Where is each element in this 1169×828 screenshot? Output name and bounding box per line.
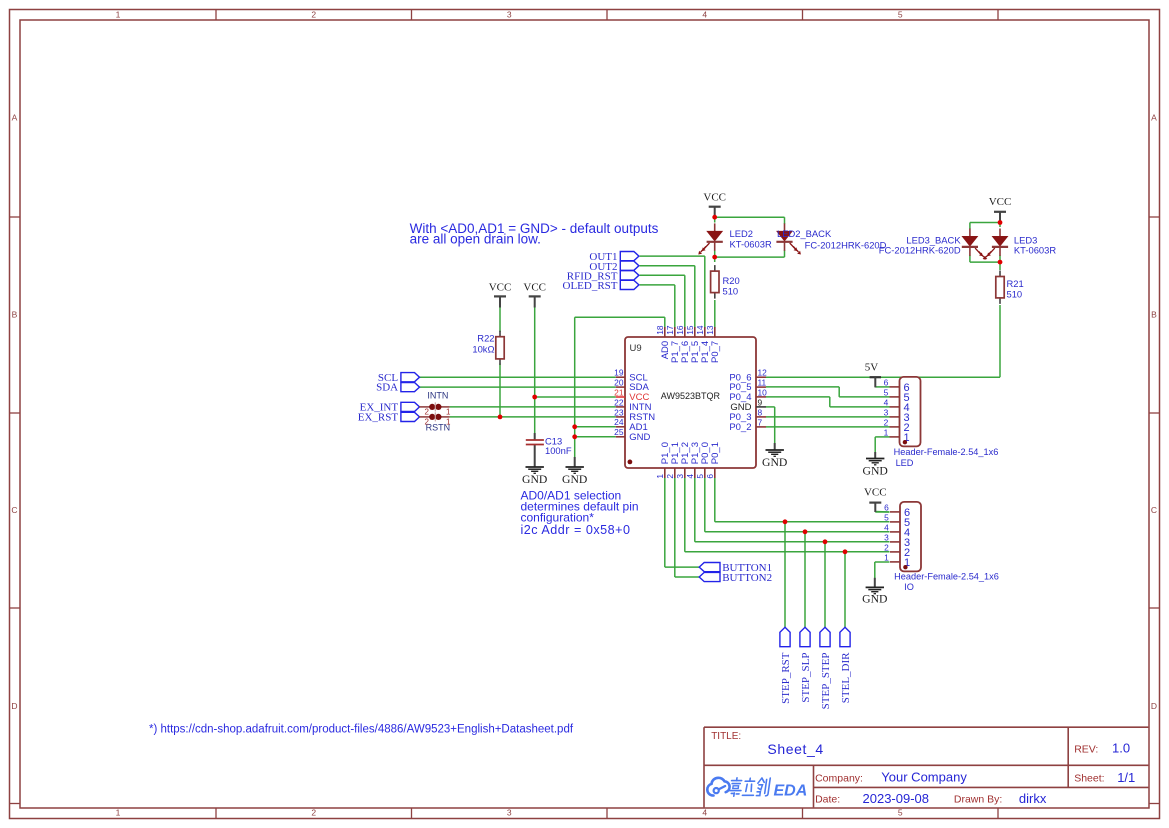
svg-text:STEP_RST: STEP_RST <box>780 652 792 704</box>
svg-text:4: 4 <box>884 523 889 533</box>
wire <box>999 217 1001 227</box>
svg-text:1: 1 <box>446 418 451 427</box>
svg-text:3: 3 <box>675 474 685 479</box>
svg-text:EX_RST: EX_RST <box>358 412 399 424</box>
svg-text:1.0: 1.0 <box>1112 741 1130 756</box>
wire <box>575 436 616 438</box>
svg-text:Date:: Date: <box>815 794 840 806</box>
svg-text:2: 2 <box>425 418 430 427</box>
port SCL <box>401 373 420 382</box>
wire <box>969 223 971 230</box>
svg-text:100nF: 100nF <box>545 445 572 456</box>
U9 pin 19 SCL <box>616 376 625 378</box>
wire <box>685 551 890 553</box>
wire <box>694 478 696 542</box>
svg-text:5: 5 <box>884 388 889 398</box>
wire <box>766 416 890 418</box>
IO header pin 1 <box>890 561 900 563</box>
svg-text:6: 6 <box>884 378 889 388</box>
svg-text:U9: U9 <box>630 343 642 354</box>
svg-text:C: C <box>1151 505 1157 515</box>
svg-text:5: 5 <box>695 474 705 479</box>
svg-text:24: 24 <box>614 417 624 427</box>
U9 pin 21 VCC <box>616 396 625 398</box>
svg-text:Sheet:: Sheet: <box>1074 772 1104 784</box>
capacitor C13 <box>534 433 536 440</box>
wire <box>714 478 716 522</box>
svg-text:3: 3 <box>507 808 512 818</box>
port OLED_RST <box>620 280 639 289</box>
wire <box>575 426 616 428</box>
wire <box>874 562 876 578</box>
svg-text:1: 1 <box>116 808 121 818</box>
pin-1 marker IO <box>903 565 907 569</box>
svg-text:2: 2 <box>425 408 430 417</box>
svg-text:BUTTON2: BUTTON2 <box>722 572 772 584</box>
svg-text:510: 510 <box>1007 289 1023 300</box>
svg-text:9: 9 <box>758 397 763 407</box>
junction <box>843 549 848 554</box>
IO header pin 6 <box>890 511 900 513</box>
svg-text:2: 2 <box>884 418 889 428</box>
wire <box>575 316 665 318</box>
wire <box>999 255 1001 270</box>
wire <box>450 416 616 418</box>
svg-text:1: 1 <box>655 474 665 479</box>
junction <box>998 220 1003 225</box>
svg-text:A: A <box>12 113 18 123</box>
svg-text:R20: R20 <box>723 275 740 286</box>
LED header pin 1 <box>890 436 900 438</box>
wire <box>774 407 776 443</box>
wire <box>419 376 616 378</box>
svg-text:Your Company: Your Company <box>881 769 967 784</box>
svg-text:VCC: VCC <box>489 282 512 294</box>
ground <box>874 452 876 459</box>
wire <box>838 387 840 397</box>
LED header pin 5 <box>890 396 900 398</box>
svg-text:REV:: REV: <box>1074 744 1098 756</box>
wire <box>804 532 806 628</box>
solder jumper RSTN <box>419 416 430 418</box>
svg-text:D: D <box>11 701 17 711</box>
U9 pin 8 P0_3 <box>756 416 766 418</box>
svg-text:23: 23 <box>614 407 624 417</box>
svg-text:1/1: 1/1 <box>1117 770 1135 785</box>
wire <box>714 300 716 328</box>
svg-text:2: 2 <box>311 808 316 818</box>
wire <box>705 531 890 533</box>
svg-text:GND: GND <box>629 432 650 443</box>
wire <box>784 522 786 628</box>
svg-text:GND: GND <box>522 473 547 486</box>
svg-text:5: 5 <box>898 10 903 20</box>
svg-text:B: B <box>12 310 18 320</box>
U9 pin 7 P0_2 <box>756 426 766 428</box>
svg-text:19: 19 <box>614 368 624 378</box>
IO header pin 5 <box>890 521 900 523</box>
svg-text:STEL_DIR: STEL_DIR <box>840 652 852 703</box>
wire <box>499 364 501 417</box>
junction <box>532 395 537 400</box>
svg-text:GND: GND <box>562 473 587 486</box>
U9 pin 4 P1_3 <box>694 468 696 478</box>
wire <box>675 576 699 578</box>
U9 pin 17 P1_7 <box>674 327 676 337</box>
wire <box>830 406 890 408</box>
svg-text:Header-Female-2.54_1x6: Header-Female-2.54_1x6 <box>894 572 999 582</box>
junction <box>712 255 717 260</box>
svg-text:KT-0603R: KT-0603R <box>1014 245 1056 256</box>
port STEP_RST <box>780 627 790 646</box>
IO header pin 3 <box>890 541 900 543</box>
wire <box>875 511 889 513</box>
ground <box>774 443 776 450</box>
U9 pin 25 GND <box>616 436 625 438</box>
port OUT2 <box>620 261 639 270</box>
svg-text:OLED_RST: OLED_RST <box>563 280 618 292</box>
wire <box>714 212 716 223</box>
svg-text:GND: GND <box>762 456 787 469</box>
wire <box>574 317 576 457</box>
port OUT1 <box>620 252 639 261</box>
U9 pin 18 AD0 <box>664 327 666 337</box>
U9 pin 12 P0_6 <box>756 376 766 378</box>
wire <box>784 217 786 224</box>
logo JLCEDA <box>707 778 729 796</box>
wire <box>704 256 706 328</box>
U9 pin 20 SDA <box>616 386 625 388</box>
port STEP_SLP <box>800 627 810 646</box>
wire <box>694 266 696 328</box>
svg-text:12: 12 <box>758 368 768 378</box>
title block <box>704 726 1148 728</box>
svg-text:VCC: VCC <box>989 196 1012 208</box>
wire <box>875 561 890 563</box>
svg-text:VCC: VCC <box>703 192 726 204</box>
svg-text:1: 1 <box>884 428 889 438</box>
svg-text:16: 16 <box>675 325 685 335</box>
port RFID_RST <box>620 271 639 280</box>
wire <box>766 396 830 398</box>
svg-text:4: 4 <box>702 10 707 20</box>
wire <box>766 406 775 408</box>
svg-text:LED2_BACK: LED2_BACK <box>777 228 832 239</box>
svg-text:B: B <box>1151 310 1157 320</box>
U9 pin 2 P1_1 <box>674 468 676 478</box>
U9 pin 10 P0_4 <box>756 396 766 398</box>
wire <box>499 307 501 333</box>
svg-text:Drawn By:: Drawn By: <box>954 794 1002 806</box>
pin-1 marker U9 <box>628 460 633 465</box>
wire <box>674 478 676 577</box>
wire <box>640 265 695 267</box>
port BUTTON2 <box>699 572 720 581</box>
svg-text:GND: GND <box>862 593 887 606</box>
LED LED3_BACK <box>969 229 971 237</box>
svg-text:Header-Female-2.54_1x6: Header-Female-2.54_1x6 <box>894 447 999 457</box>
wire <box>766 386 839 388</box>
svg-text:*) https://cdn-shop.adafruit.c: *) https://cdn-shop.adafruit.com/product… <box>149 724 574 736</box>
svg-text:P0_7: P0_7 <box>710 341 721 363</box>
svg-text:VCC: VCC <box>523 282 546 294</box>
junction <box>498 415 503 420</box>
svg-text:1: 1 <box>116 10 121 20</box>
U9 pin 16 P1_6 <box>684 327 686 337</box>
svg-text:C: C <box>11 505 17 515</box>
U9 pin 3 P1_2 <box>684 468 686 478</box>
resistor R22 <box>499 331 501 337</box>
U9 pin 11 P0_5 <box>756 386 766 388</box>
port EX_INT <box>401 402 420 411</box>
wire <box>450 406 616 408</box>
junction <box>803 529 808 534</box>
svg-text:5: 5 <box>884 513 889 523</box>
svg-text:6: 6 <box>705 474 715 479</box>
svg-text:EDA: EDA <box>774 783 808 800</box>
svg-text:R21: R21 <box>1007 278 1024 289</box>
wire <box>419 386 616 388</box>
LED LED2 <box>714 223 716 231</box>
svg-text:2: 2 <box>311 10 316 20</box>
LED header pin 6 <box>890 386 900 388</box>
wire <box>640 274 685 276</box>
svg-text:1: 1 <box>884 553 889 563</box>
wire <box>839 396 889 398</box>
wire <box>684 275 686 328</box>
wire <box>874 437 876 453</box>
LED LED3 <box>999 229 1001 237</box>
svg-text:2023-09-08: 2023-09-08 <box>863 791 930 806</box>
wire <box>844 552 846 628</box>
wire <box>969 255 971 262</box>
junction <box>998 260 1003 265</box>
wire <box>715 521 890 523</box>
junction <box>572 434 577 439</box>
svg-text:21: 21 <box>614 387 624 397</box>
LED header pin 2 <box>890 426 900 428</box>
wire <box>684 478 686 552</box>
svg-text:dirkx: dirkx <box>1019 791 1047 806</box>
wire <box>715 216 785 218</box>
svg-text:R22: R22 <box>477 333 494 344</box>
svg-text:INTN: INTN <box>427 391 448 401</box>
wire <box>875 386 889 388</box>
svg-text:TITLE:: TITLE: <box>711 731 741 742</box>
LED header pin 3 <box>890 416 900 418</box>
svg-text:SDA: SDA <box>376 382 398 394</box>
wire <box>875 436 889 438</box>
svg-text:20: 20 <box>614 378 624 388</box>
svg-text:4: 4 <box>884 398 889 408</box>
svg-text:LED2: LED2 <box>730 228 753 239</box>
svg-text:2: 2 <box>665 474 675 479</box>
junction <box>712 215 717 220</box>
svg-text:GND: GND <box>863 465 888 478</box>
svg-text:11: 11 <box>758 378 767 388</box>
resistor R21 <box>999 271 1001 277</box>
U9 pin 13 P0_7 <box>714 327 716 337</box>
wire <box>875 511 889 514</box>
U9 pin 24 AD1 <box>616 426 625 428</box>
wire <box>640 255 705 257</box>
svg-text:LED: LED <box>896 458 914 468</box>
svg-text:VCC: VCC <box>864 487 887 499</box>
svg-text:6: 6 <box>884 503 889 513</box>
svg-text:4: 4 <box>685 474 695 479</box>
U9 pin 23 RSTN <box>616 416 625 418</box>
svg-text:22: 22 <box>614 397 624 407</box>
junction <box>783 519 788 524</box>
wire <box>715 256 785 258</box>
wire <box>784 250 786 257</box>
svg-text:4: 4 <box>702 808 707 818</box>
svg-text:D: D <box>1151 701 1157 711</box>
port BUTTON1 <box>699 563 720 572</box>
svg-text:Sheet_4: Sheet_4 <box>767 741 823 757</box>
wire <box>640 284 675 286</box>
wire <box>766 376 1000 378</box>
port SDA <box>401 383 420 392</box>
ground <box>534 445 536 468</box>
svg-text:3: 3 <box>884 533 889 543</box>
svg-text:P0_1: P0_1 <box>710 442 721 464</box>
wire <box>999 305 1001 377</box>
U9 pin 15 P1_5 <box>694 327 696 337</box>
wire <box>664 317 666 328</box>
LED header pin 4 <box>890 406 900 408</box>
LED LED2_BACK <box>784 223 786 231</box>
wire <box>534 307 536 434</box>
junction <box>823 539 828 544</box>
port STEP_STEP <box>820 627 830 646</box>
svg-text:14: 14 <box>695 325 705 335</box>
svg-text:5: 5 <box>898 808 903 818</box>
U9 pin 22 INTN <box>616 406 625 408</box>
wire <box>695 541 890 543</box>
connector LED Header-Female-2.54_1x6 <box>900 377 921 447</box>
svg-text:510: 510 <box>723 286 739 297</box>
svg-text:7: 7 <box>758 417 763 427</box>
wire <box>704 478 706 532</box>
IC U9 AW9523BTQR I/O expander <box>625 337 756 468</box>
wire <box>766 426 890 428</box>
port STEL_DIR <box>840 627 850 646</box>
wire <box>824 542 826 628</box>
svg-text:KT-0603R: KT-0603R <box>730 239 772 250</box>
wire <box>674 285 676 328</box>
svg-text:STEP_STEP: STEP_STEP <box>820 653 832 710</box>
junction <box>572 424 577 429</box>
svg-text:Company:: Company: <box>815 772 863 784</box>
svg-text:2: 2 <box>884 543 889 553</box>
IO header pin 4 <box>890 531 900 533</box>
svg-text:IO: IO <box>904 582 914 592</box>
svg-text:AW9523BTQR: AW9523BTQR <box>661 391 721 401</box>
connector IO Header-Female-2.54_1x6 <box>900 502 921 572</box>
IO header pin 2 <box>890 551 900 553</box>
svg-text:17: 17 <box>665 325 675 335</box>
U9 pin 9 GND <box>756 406 766 408</box>
svg-text:A: A <box>1151 113 1157 123</box>
U9 pin 14 P1_4 <box>704 327 706 337</box>
svg-text:8: 8 <box>758 407 763 417</box>
svg-text:FC-2012HRK-620D: FC-2012HRK-620D <box>879 245 961 256</box>
wire <box>829 397 831 407</box>
ground <box>874 578 876 588</box>
svg-text:STEP_SLP: STEP_SLP <box>800 653 812 703</box>
svg-text:3: 3 <box>507 10 512 20</box>
solder jumper INTN <box>419 406 430 408</box>
wire <box>970 261 1000 263</box>
svg-text:10kΩ: 10kΩ <box>472 344 494 355</box>
svg-text:P0_2: P0_2 <box>729 422 751 433</box>
resistor R20 <box>714 265 716 271</box>
U9 pin 6 P0_1 <box>714 468 716 478</box>
U9 pin 5 P0_0 <box>704 468 706 478</box>
svg-text:18: 18 <box>655 325 665 335</box>
svg-text:25: 25 <box>614 427 624 437</box>
svg-text:are all open drain low.: are all open drain low. <box>410 232 541 247</box>
pin-1 marker LED <box>903 440 907 444</box>
wire <box>664 478 666 567</box>
svg-text:13: 13 <box>705 325 715 335</box>
svg-text:1: 1 <box>446 408 451 417</box>
wire <box>535 396 616 398</box>
svg-text:3: 3 <box>884 408 889 418</box>
svg-text:10: 10 <box>758 387 768 397</box>
ground <box>574 457 576 467</box>
svg-text:5V: 5V <box>865 362 879 374</box>
wire <box>970 222 1000 224</box>
svg-text:15: 15 <box>685 325 695 335</box>
wire <box>714 250 716 262</box>
svg-text:i2c Addr = 0x58+0: i2c Addr = 0x58+0 <box>521 523 631 537</box>
U9 pin 1 P1_0 <box>664 468 666 478</box>
svg-text:FC-2012HRK-620D: FC-2012HRK-620D <box>805 240 887 251</box>
port EX_RST <box>401 412 420 421</box>
wire <box>665 566 699 568</box>
